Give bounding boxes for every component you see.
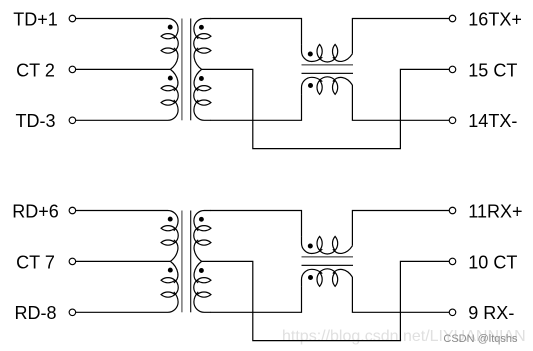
svg-text:16TX+: 16TX+ bbox=[468, 9, 522, 29]
svg-text:CT 7: CT 7 bbox=[16, 252, 55, 272]
receive channel circuit bbox=[69, 207, 456, 340]
svg-text:TD+1: TD+1 bbox=[13, 9, 58, 29]
svg-text:RD-8: RD-8 bbox=[14, 303, 56, 323]
transmit channel circuit bbox=[69, 15, 456, 148]
svg-text:10 CT: 10 CT bbox=[468, 252, 517, 272]
svg-text:11RX+: 11RX+ bbox=[468, 201, 522, 221]
svg-text:CSDN @ltqshs: CSDN @ltqshs bbox=[443, 333, 518, 345]
svg-text:14TX-: 14TX- bbox=[468, 111, 517, 131]
svg-text:RD+6: RD+6 bbox=[12, 201, 59, 221]
svg-text:15 CT: 15 CT bbox=[468, 60, 517, 80]
svg-text:TD-3: TD-3 bbox=[16, 111, 56, 131]
svg-text:CT 2: CT 2 bbox=[16, 60, 55, 80]
svg-text:9 RX-: 9 RX- bbox=[468, 303, 514, 323]
